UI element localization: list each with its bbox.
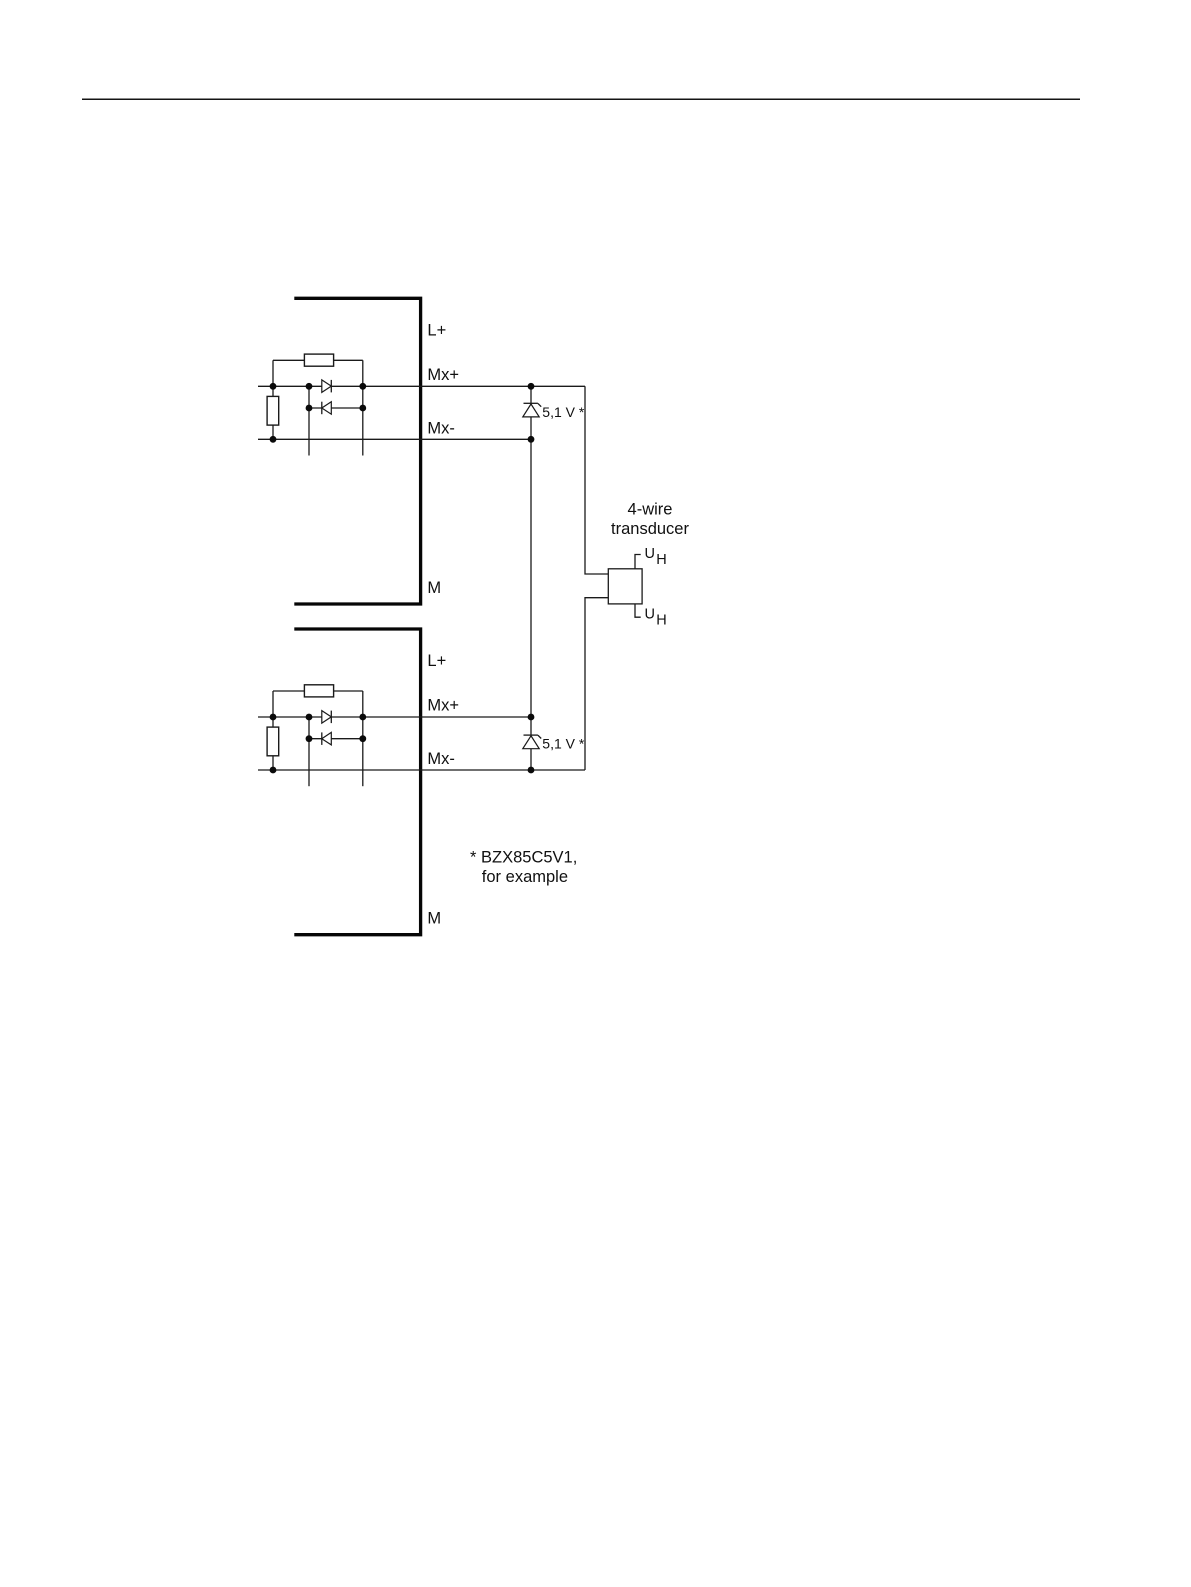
- resistor horizontal (module 1): [304, 354, 333, 366]
- wire Mx- rail (module 1): [258, 438, 531, 440]
- transducer supply pin bottom: [635, 604, 641, 617]
- junction dot diode branch left (module 2): [306, 735, 313, 742]
- transducer box U1: [608, 569, 642, 604]
- junction dot Mx- left (module 1): [270, 436, 277, 443]
- junction dot zener 1 top: [528, 383, 535, 390]
- junction dot Mx+ left (module 2): [270, 714, 277, 721]
- diode D2 left-pointing (module 2): [322, 732, 332, 745]
- wire left vertical branch (module 1): [272, 360, 274, 439]
- wire Mx- rail (module 2): [258, 769, 585, 771]
- wire transducer return to module 2 Mx-: [585, 598, 608, 770]
- wire resistor top branch (module 2): [273, 690, 363, 692]
- junction dot Mx- left (module 2): [270, 767, 277, 774]
- wire inner vertical stub B (module 2): [362, 691, 364, 786]
- junction dot Mx+ left (module 1): [270, 383, 277, 390]
- svg-text:L+: L+: [427, 321, 446, 339]
- svg-text:H: H: [656, 552, 666, 568]
- analog input module 1 outline: [294, 298, 420, 604]
- wire resistor top branch (module 1): [273, 359, 363, 361]
- junction dot Mx+ stub B (module 1): [359, 383, 366, 390]
- junction dot diode branch right (module 2): [359, 735, 366, 742]
- wire Mx+ rail (module 2): [258, 716, 531, 718]
- svg-text:Mx-: Mx-: [427, 750, 455, 768]
- wire diode branch (module 1): [309, 407, 363, 409]
- svg-text:U: U: [645, 546, 655, 562]
- wire inner vertical stub A (module 2): [308, 717, 310, 786]
- svg-text:4-wire: 4-wire: [628, 501, 673, 519]
- resistor vertical (module 1): [267, 396, 279, 425]
- svg-text:transducer: transducer: [611, 520, 689, 538]
- svg-text:U: U: [645, 606, 655, 622]
- junction dot zener 2 bottom: [528, 767, 535, 774]
- diode D2 left-pointing (module 1): [322, 402, 332, 415]
- wire zener column x=531 (module 1 Mx+ to module 2 Mx-): [530, 386, 532, 770]
- analog input module 2 outline: [294, 629, 420, 935]
- diode D1 right-pointing (module 1): [322, 380, 332, 393]
- svg-text:Mx-: Mx-: [427, 420, 455, 438]
- wire inner vertical stub B (module 1): [362, 360, 364, 455]
- zener diode VR1: [523, 403, 541, 417]
- wire module 1 Mx+ to transducer input: [585, 386, 608, 574]
- wire diode branch (module 2): [309, 738, 363, 740]
- resistor vertical (module 2): [267, 727, 279, 756]
- junction dot Mx+ stub B (module 2): [359, 714, 366, 721]
- svg-text:L+: L+: [427, 652, 446, 670]
- svg-text:for example: for example: [482, 868, 568, 886]
- resistor horizontal (module 2): [304, 685, 333, 697]
- header rule: [82, 98, 1080, 100]
- junction dot Mx+ stub A (module 1): [306, 383, 313, 390]
- junction dot zener 2 top: [528, 714, 535, 721]
- junction dot diode branch right (module 1): [359, 405, 366, 412]
- svg-text:M: M: [427, 910, 441, 928]
- junction dot Mx+ stub A (module 2): [306, 714, 313, 721]
- wire Mx+ rail (module 1): [258, 385, 585, 387]
- zener diode VR2: [523, 735, 541, 749]
- svg-text:M: M: [427, 579, 441, 597]
- svg-text:* BZX85C5V1,: * BZX85C5V1,: [470, 849, 577, 867]
- svg-text:5,1 V *: 5,1 V *: [542, 404, 585, 420]
- transducer supply pin top: [635, 555, 641, 569]
- svg-text:H: H: [656, 613, 666, 629]
- wire left vertical branch (module 2): [272, 691, 274, 770]
- svg-text:5,1 V *: 5,1 V *: [542, 736, 585, 752]
- junction dot diode branch left (module 1): [306, 405, 313, 412]
- svg-text:Mx+: Mx+: [427, 697, 459, 715]
- diode D1 right-pointing (module 2): [322, 711, 332, 724]
- wire inner vertical stub A (module 1): [308, 386, 310, 455]
- junction dot zener 1 bottom: [528, 436, 535, 443]
- svg-text:Mx+: Mx+: [427, 366, 459, 384]
